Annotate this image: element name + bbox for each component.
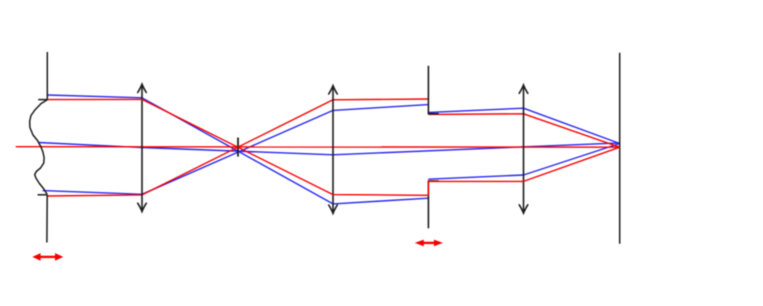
wavy wavefront curve: [30, 100, 48, 195]
image plane: [619, 53, 621, 244]
lens L1 top arrowhead: [138, 84, 147, 92]
lens L3 top arrowhead: [519, 85, 528, 93]
phase plate upper half: [428, 66, 438, 114]
phase plate lower half: [428, 181, 438, 228]
blue ray from object top point (before plate): [48, 95, 429, 204]
object plane lower segment: [46, 195, 48, 243]
blue central ray: [38, 143, 619, 155]
optical axis (red): [16, 146, 620, 149]
object plane upper segment: [46, 52, 48, 100]
blue ray from object bottom point (before plate): [43, 105, 429, 195]
red ray from object top point (with jog at plate, drawn over plate): [48, 99, 620, 195]
blue ray from object top point (after plate): [428, 144, 619, 180]
lens L2 top arrowhead: [329, 86, 338, 94]
right red shift arrow: [415, 240, 443, 247]
red ray from object bottom point (after plate): [429, 114, 620, 147]
lens L3 shaft: [523, 85, 525, 213]
intermediate image tick: [237, 138, 239, 157]
lens L3 bottom arrowhead: [519, 205, 528, 213]
object top tick: [38, 99, 47, 101]
lens L1 bottom arrowhead: [138, 203, 147, 211]
left red shift arrow: [32, 253, 63, 261]
lens L1 shaft: [141, 84, 143, 211]
lens L2 bottom arrowhead: [329, 205, 338, 213]
object bottom tick: [38, 194, 48, 196]
red ray from object bottom point (before plate): [47, 99, 428, 196]
lens L2 shaft: [332, 86, 334, 214]
blue ray from object bottom point (after plate): [429, 108, 620, 143]
